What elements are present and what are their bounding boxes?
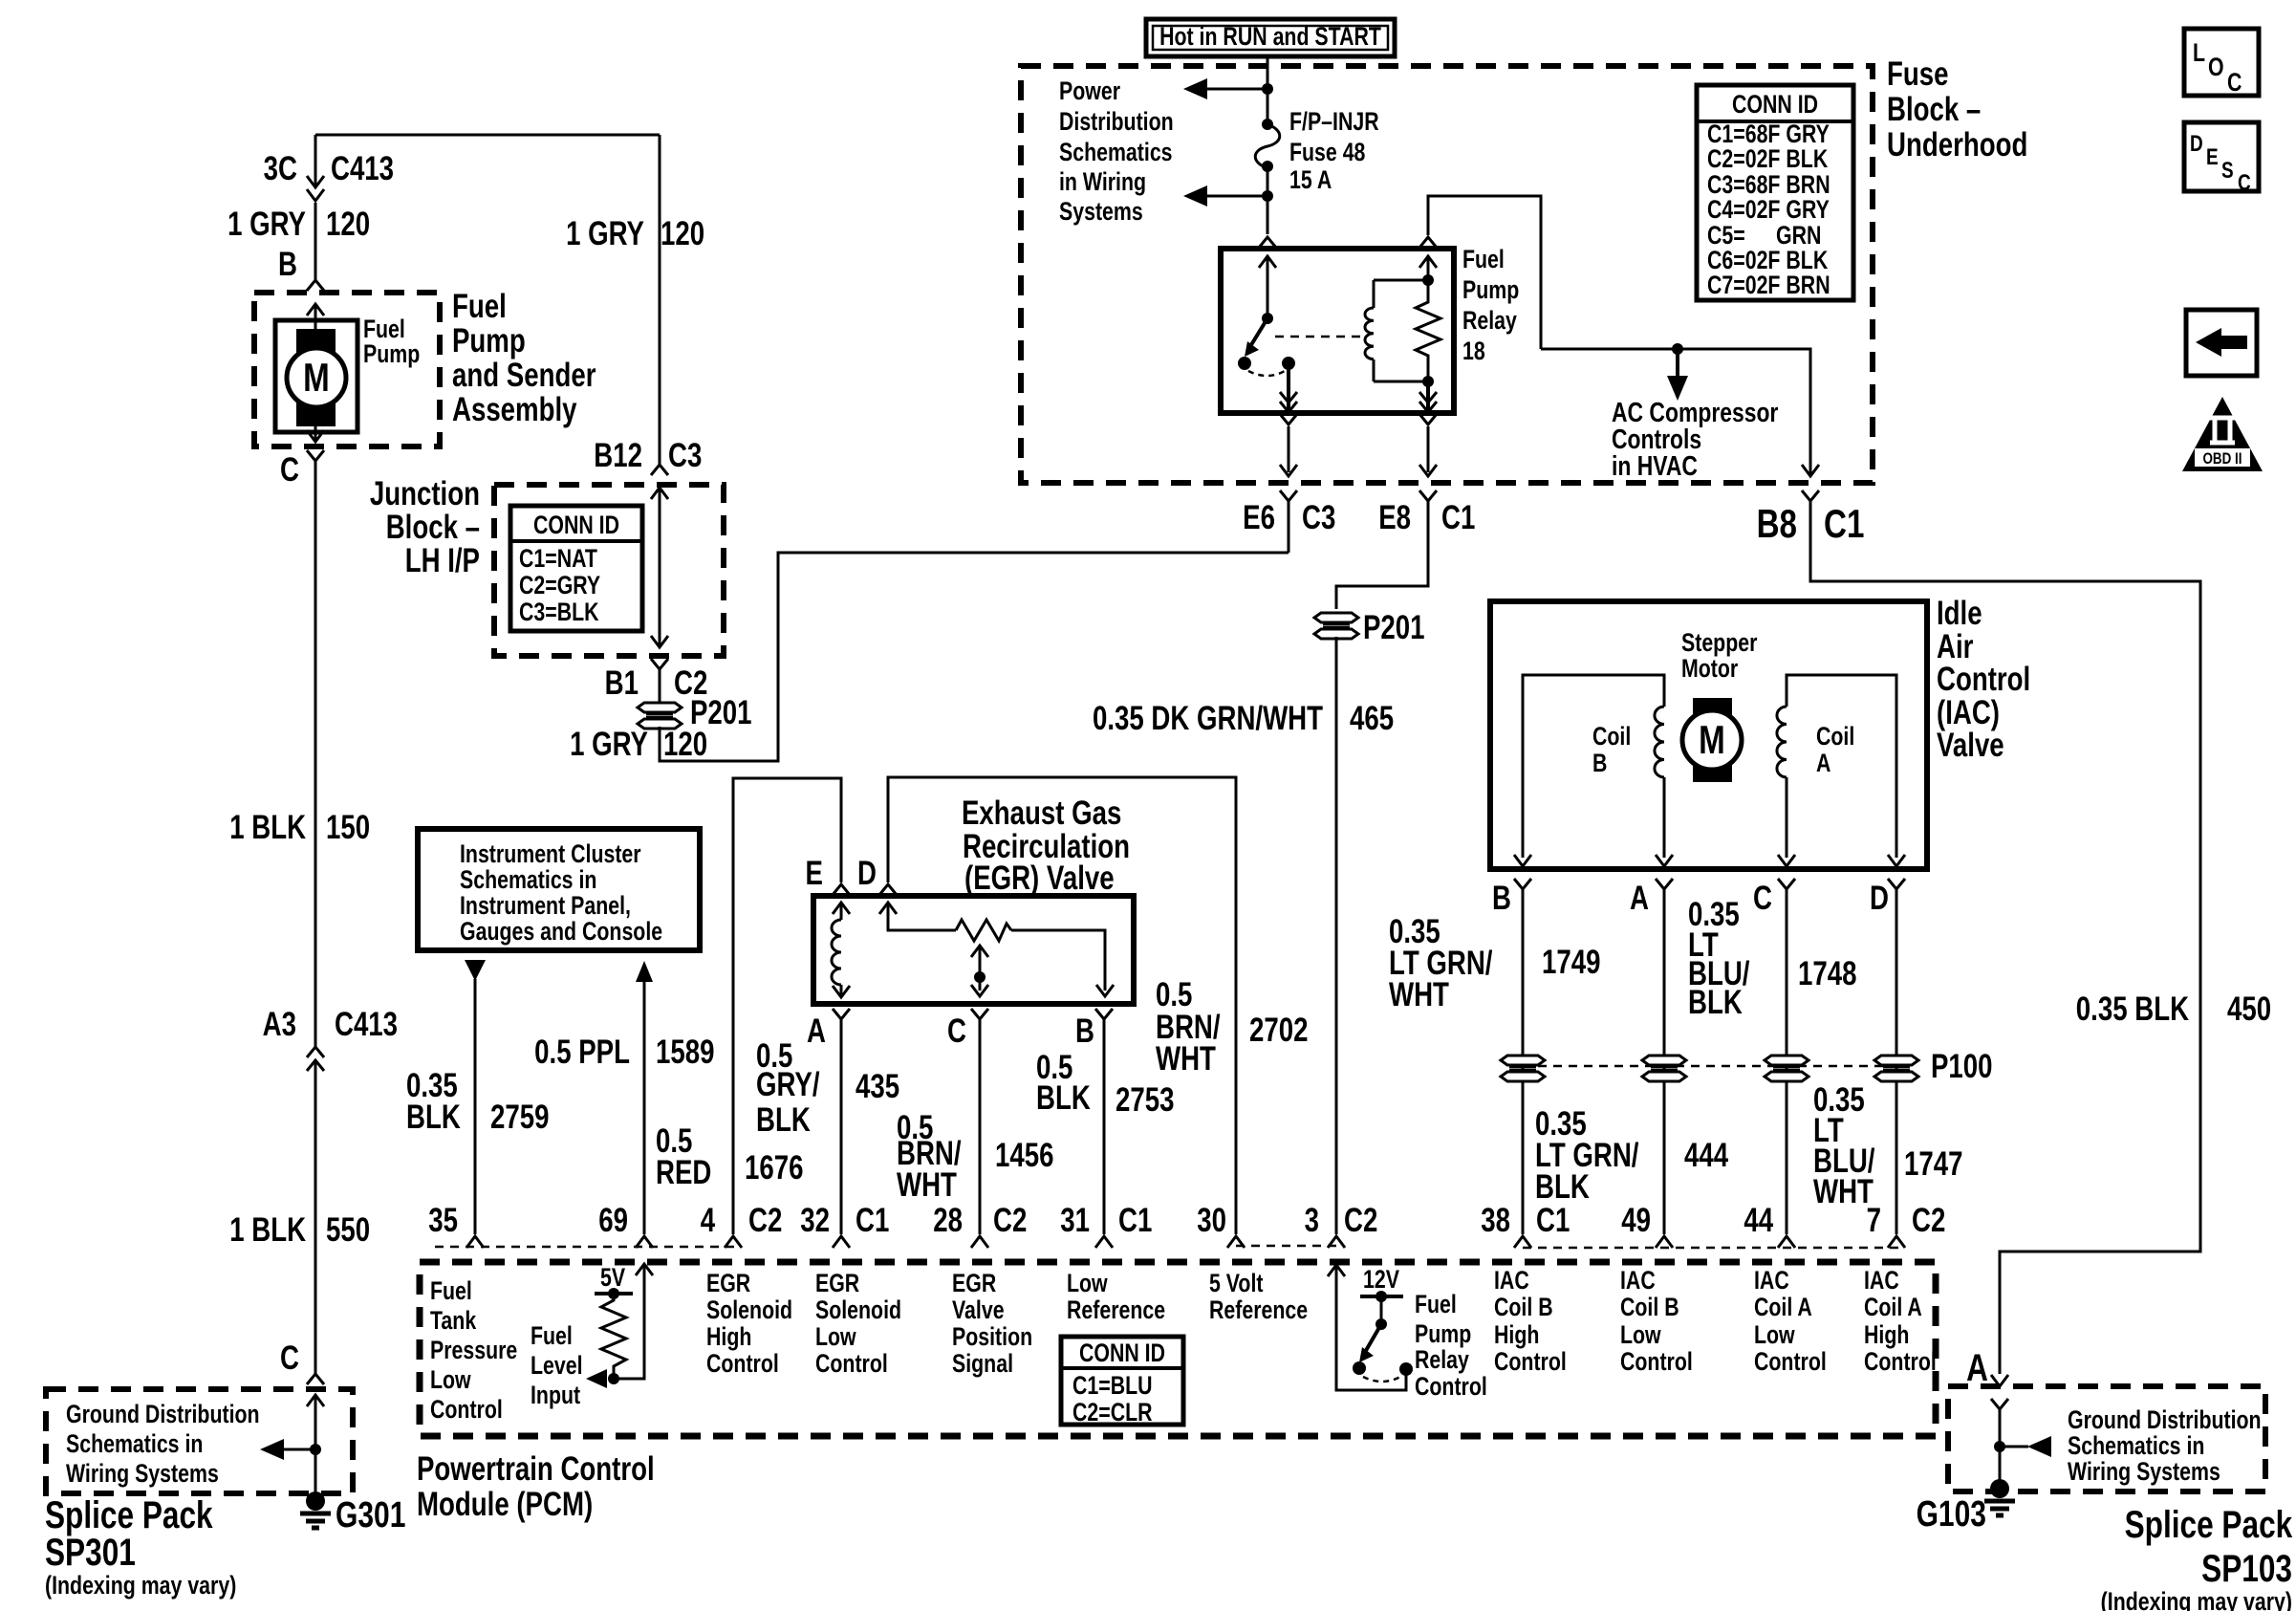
EGR valve box <box>813 896 1134 1004</box>
svg-text:1 GRY: 1 GRY <box>566 214 644 252</box>
relay contact dot left <box>1238 357 1251 370</box>
chevron IAC pin A <box>1656 879 1673 889</box>
svg-text:C4=02F GRY: C4=02F GRY <box>1707 196 1830 225</box>
relay contact dashed arc <box>1248 371 1285 376</box>
svg-text:2759: 2759 <box>490 1098 549 1136</box>
chevron IAC pin C <box>1778 879 1795 889</box>
svg-text:5 Volt: 5 Volt <box>1209 1270 1263 1298</box>
wire 2753 B pin to PCM pin 31 <box>1103 1019 1106 1234</box>
wire left vertical from top to connector C413 <box>314 135 317 187</box>
connector P100 grommet on wire 1749 <box>1501 1056 1545 1081</box>
wire inside junction block with both arrows <box>651 488 668 647</box>
svg-text:D: D <box>2190 130 2203 157</box>
svg-text:G103: G103 <box>1917 1494 1986 1535</box>
node switch contact dot right <box>1399 1362 1413 1376</box>
thin dashed connector line pins 38-49-44-7 <box>1523 1247 1898 1250</box>
svg-text:2753: 2753 <box>1116 1080 1174 1119</box>
svg-text:Stepper: Stepper <box>1681 629 1758 658</box>
svg-text:EGR: EGR <box>952 1270 997 1298</box>
svg-text:12V: 12V <box>1363 1266 1400 1295</box>
svg-text:2702: 2702 <box>1249 1011 1308 1049</box>
svg-text:Fuse 48: Fuse 48 <box>1289 139 1365 167</box>
relay switch common arrow up <box>1259 255 1276 318</box>
wire below fuse <box>1267 166 1269 196</box>
relay mechanical dashed link <box>1275 336 1361 338</box>
chevron PCM pin 32 <box>833 1236 850 1248</box>
svg-text:Low: Low <box>430 1366 471 1395</box>
chevron B8 <box>1802 490 1819 501</box>
svg-text:C2=02F BLK: C2=02F BLK <box>1707 145 1829 174</box>
svg-text:Pressure: Pressure <box>430 1337 517 1365</box>
relay coil feed wire up <box>1419 255 1437 280</box>
EGR position sensor resistor <box>956 920 1011 941</box>
node switch contact dot left <box>1353 1361 1366 1375</box>
svg-text:BLK: BLK <box>406 1098 461 1136</box>
node 12V dot <box>1375 1291 1387 1302</box>
svg-text:38: 38 <box>1481 1201 1510 1239</box>
relay switch pivot dot <box>1262 313 1273 324</box>
wire relay to E6 <box>1288 426 1290 472</box>
svg-text:Pump: Pump <box>1462 276 1519 305</box>
svg-text:B8: B8 <box>1757 502 1797 547</box>
DESC reference box <box>2184 122 2259 196</box>
chevron IAC pin B <box>1514 879 1531 889</box>
svg-text:465: 465 <box>1350 699 1394 737</box>
svg-text:C2: C2 <box>748 1201 782 1239</box>
svg-text:Block –: Block – <box>386 508 480 546</box>
IAC coil B loop <box>1523 675 1664 858</box>
svg-text:Distribution: Distribution <box>1059 108 1174 137</box>
svg-text:D: D <box>1870 879 1889 917</box>
fuse F48 symbol <box>1255 119 1280 172</box>
svg-text:Pump: Pump <box>452 321 526 359</box>
5V supply bar <box>595 1292 633 1295</box>
svg-text:49: 49 <box>1621 1201 1651 1239</box>
svg-text:L: L <box>2193 39 2205 68</box>
svg-text:P201: P201 <box>1363 608 1425 646</box>
svg-text:C1: C1 <box>1118 1201 1152 1239</box>
svg-text:Exhaust Gas: Exhaust Gas <box>962 794 1121 832</box>
connector P201 right grommet <box>1314 613 1358 639</box>
wire junction to B8 <box>1541 349 1810 475</box>
svg-text:Solenoid: Solenoid <box>706 1296 792 1325</box>
connector C413 arrow half <box>307 176 324 187</box>
svg-text:E8: E8 <box>1378 498 1411 536</box>
svg-text:Wiring Systems: Wiring Systems <box>2068 1458 2220 1487</box>
arrowhead coil B left leg <box>1514 855 1531 866</box>
svg-text:Signal: Signal <box>952 1350 1013 1379</box>
relay switch arm arrowhead <box>1245 341 1259 357</box>
svg-text:BLK: BLK <box>1688 983 1743 1021</box>
arrow up into SP301 <box>307 1395 324 1497</box>
svg-text:Fuel: Fuel <box>452 287 507 325</box>
wire branch to splice arrow <box>283 1448 315 1451</box>
thin dashed connector line pins 35-69-4 <box>435 1246 736 1249</box>
relay switch arm <box>1249 318 1267 348</box>
svg-text:B12: B12 <box>594 436 642 474</box>
svg-text:Low: Low <box>1067 1270 1108 1298</box>
wire 1748 IAC C to PCM pin 44 <box>1786 889 1788 1234</box>
svg-text:1 GRY: 1 GRY <box>570 725 648 763</box>
svg-text:High: High <box>1494 1321 1539 1350</box>
svg-text:M: M <box>1699 718 1725 763</box>
svg-text:Low: Low <box>815 1323 856 1352</box>
svg-text:Relay: Relay <box>1415 1346 1469 1375</box>
svg-text:Schematics in: Schematics in <box>2068 1432 2204 1461</box>
svg-text:E6: E6 <box>1243 498 1275 536</box>
svg-text:1456: 1456 <box>995 1136 1053 1174</box>
12V supply bar <box>1360 1295 1403 1298</box>
svg-text:SP103: SP103 <box>2201 1546 2292 1589</box>
relay control switch arm <box>1364 1324 1381 1354</box>
svg-text:Tank: Tank <box>430 1307 477 1336</box>
svg-text:3C: 3C <box>264 149 297 187</box>
node junction dot <box>1262 83 1273 95</box>
svg-text:28: 28 <box>933 1201 963 1239</box>
ground G103 <box>1984 1479 2015 1515</box>
svg-text:IAC: IAC <box>1754 1267 1789 1295</box>
svg-text:CONN ID: CONN ID <box>1732 91 1818 120</box>
svg-text:0.5 PPL: 0.5 PPL <box>534 1033 630 1071</box>
chevron PCM pin 4 <box>725 1236 742 1248</box>
wire from P201 down right and up to E6 <box>660 553 1289 761</box>
EGR wiper arrow <box>971 946 988 996</box>
svg-text:69: 69 <box>598 1201 628 1239</box>
svg-text:3: 3 <box>1305 1201 1319 1239</box>
svg-text:Control: Control <box>1494 1348 1567 1377</box>
svg-text:44: 44 <box>1744 1201 1773 1239</box>
svg-text:Control: Control <box>1620 1348 1693 1377</box>
wire E feed from pin 4 <box>733 778 841 1234</box>
wire right vertical 1 GRY 120 from top to junction block <box>659 135 661 465</box>
svg-text:Reference: Reference <box>1209 1296 1308 1325</box>
arrowhead coil A right leg <box>1888 855 1905 866</box>
svg-text:RED: RED <box>656 1153 711 1191</box>
wire relay coil to E8 <box>1427 426 1430 472</box>
svg-text:1749: 1749 <box>1542 943 1600 981</box>
svg-text:450: 450 <box>2227 990 2271 1028</box>
svg-text:Fuse: Fuse <box>1887 54 1948 93</box>
IAC valve box <box>1490 601 1927 869</box>
wire 444 IAC A to PCM pin 49 <box>1663 889 1666 1234</box>
wire pin 3 internal <box>1328 1265 1406 1390</box>
chevron E6 below relay <box>1280 414 1297 425</box>
svg-text:1747: 1747 <box>1904 1144 1962 1183</box>
IAC coil A loop <box>1777 675 1896 858</box>
relay output double arrowhead <box>1280 392 1297 412</box>
svg-text:Hot in RUN and START: Hot in RUN and START <box>1159 23 1381 52</box>
svg-text:C1=NAT: C1=NAT <box>519 545 597 574</box>
svg-text:31: 31 <box>1060 1201 1090 1239</box>
svg-text:444: 444 <box>1684 1136 1729 1174</box>
svg-text:18: 18 <box>1462 337 1485 366</box>
svg-text:15 A: 15 A <box>1289 166 1332 195</box>
splice pack SP103 dashed box <box>1948 1386 2265 1491</box>
svg-text:Valve: Valve <box>1937 726 2004 764</box>
svg-text:C413: C413 <box>335 1005 398 1043</box>
arrowhead E6 at fuse block edge <box>1280 465 1297 476</box>
svg-text:Coil: Coil <box>1816 723 1854 751</box>
svg-text:Wiring Systems: Wiring Systems <box>66 1460 219 1489</box>
svg-text:C413: C413 <box>331 149 394 187</box>
wire 1747 IAC D to PCM pin 7 <box>1895 889 1898 1234</box>
wire 1 GRY 120 down to fuel pump <box>314 203 317 280</box>
svg-text:GRY/: GRY/ <box>756 1065 820 1103</box>
svg-text:Control: Control <box>1754 1348 1827 1377</box>
svg-text:IAC: IAC <box>1494 1267 1529 1295</box>
svg-text:1 GRY: 1 GRY <box>227 205 306 243</box>
svg-text:(EGR) Valve: (EGR) Valve <box>964 859 1115 897</box>
svg-text:C: C <box>1753 879 1772 917</box>
PCM CONN ID table <box>1061 1337 1183 1427</box>
chevron E8 below relay <box>1419 414 1437 425</box>
svg-text:Position: Position <box>952 1323 1032 1352</box>
arrowhead up into instrument cluster <box>636 961 653 982</box>
chevron IAC pin D <box>1888 879 1905 889</box>
arrowhead coil A left leg <box>1778 855 1795 866</box>
junction block CONN ID table <box>510 506 642 631</box>
wire AC compressor stub <box>1676 349 1679 377</box>
chevron C pin <box>971 1009 988 1019</box>
terminal B chevron <box>307 280 324 291</box>
fuel pump and sender assembly dashed box <box>254 293 440 446</box>
node switch pivot dot <box>1375 1318 1387 1330</box>
svg-text:F/P–INJR: F/P–INJR <box>1289 108 1379 137</box>
wire 1 BLK 150 left main ground wire <box>314 461 317 1047</box>
svg-text:IAC: IAC <box>1864 1267 1899 1295</box>
svg-text:C3: C3 <box>668 436 702 474</box>
relay coil top bracket <box>1374 279 1428 282</box>
svg-text:Instrument Panel,: Instrument Panel, <box>460 892 631 921</box>
svg-text:0.35 DK GRN/WHT: 0.35 DK GRN/WHT <box>1093 699 1323 737</box>
svg-text:B1: B1 <box>605 664 639 702</box>
svg-text:C1: C1 <box>856 1201 889 1239</box>
fuel pump motor M1 <box>275 320 357 432</box>
node fuel level input dot <box>608 1373 619 1384</box>
svg-text:C3: C3 <box>1302 498 1335 536</box>
svg-text:1 BLK: 1 BLK <box>229 1210 306 1249</box>
svg-text:Module (PCM): Module (PCM) <box>417 1485 593 1523</box>
node EGR wiper dot <box>974 971 986 983</box>
svg-text:Block –: Block – <box>1887 90 1981 128</box>
wire 435 A pin to PCM pin 32 <box>840 1019 843 1234</box>
svg-text:1748: 1748 <box>1798 954 1856 992</box>
svg-text:C2=GRY: C2=GRY <box>519 572 600 600</box>
wire from hot box down <box>1267 56 1269 89</box>
chevron A pin <box>833 1009 850 1019</box>
connector P100 grommet on wire 444 <box>1642 1056 1686 1081</box>
svg-text:30: 30 <box>1197 1201 1226 1239</box>
PCM dashed box <box>420 1262 1936 1436</box>
svg-text:C: C <box>2227 69 2242 98</box>
svg-text:High: High <box>706 1323 751 1352</box>
chevron PCM pin 69 <box>636 1236 653 1248</box>
svg-text:32: 32 <box>800 1201 830 1239</box>
back arrow reference box <box>2186 310 2257 376</box>
svg-text:Input: Input <box>531 1382 580 1410</box>
svg-text:A: A <box>1630 879 1649 917</box>
svg-text:OBD II: OBD II <box>2203 450 2242 468</box>
wire to power distribution arrow 2 <box>1206 195 1267 198</box>
svg-text:Power: Power <box>1059 77 1120 106</box>
terminal C chevron at splice pack <box>307 1374 324 1384</box>
svg-text:Control: Control <box>1864 1348 1937 1377</box>
svg-text:B: B <box>1492 879 1511 917</box>
svg-text:Control: Control <box>706 1350 779 1379</box>
svg-text:Coil: Coil <box>1592 723 1631 751</box>
arrowhead power distribution 1 <box>1183 78 1207 99</box>
relay coil bottom bracket <box>1374 381 1428 383</box>
relay resistor <box>1416 280 1440 381</box>
fuel level pullup resistor <box>601 1294 626 1379</box>
wire B1 to P201 <box>659 669 661 703</box>
svg-text:Level: Level <box>531 1352 583 1381</box>
svg-text:C2=CLR: C2=CLR <box>1072 1399 1153 1427</box>
wire branch to splice arrow <box>2000 1446 2028 1448</box>
Hot in RUN and START box <box>1146 19 1395 56</box>
svg-text:Control: Control <box>430 1396 503 1425</box>
svg-text:A: A <box>807 1012 826 1050</box>
svg-text:SP301: SP301 <box>45 1530 136 1573</box>
svg-text:BLK: BLK <box>756 1100 811 1139</box>
splice pack SP301 dashed box <box>46 1389 353 1493</box>
svg-text:CONN ID: CONN ID <box>1079 1339 1165 1368</box>
chevron PCM pin 28 <box>971 1236 988 1248</box>
wire E8 to P201 right <box>1336 501 1428 609</box>
chevron E pin <box>833 884 850 895</box>
svg-text:WHT: WHT <box>1389 975 1449 1013</box>
node coil bottom dot <box>1422 376 1434 387</box>
svg-text:Low: Low <box>1754 1321 1795 1350</box>
svg-text:A: A <box>1966 1345 1988 1388</box>
svg-text:120: 120 <box>326 205 370 243</box>
svg-text:Ground Distribution: Ground Distribution <box>66 1401 260 1429</box>
chevron PCM pin 31 <box>1095 1236 1113 1248</box>
LOC reference box <box>2184 29 2259 98</box>
EGR position sensor right leg <box>1011 930 1114 996</box>
node coil top dot <box>1422 274 1434 286</box>
svg-text:M: M <box>303 356 330 401</box>
svg-text:Low: Low <box>1620 1321 1661 1350</box>
instrument cluster reference box <box>418 829 700 950</box>
wire pin 69 internal <box>614 1264 653 1379</box>
splice arrowhead left <box>260 1439 284 1460</box>
splice arrowhead left <box>2027 1436 2051 1457</box>
EGR solenoid coil winding <box>832 903 850 997</box>
svg-text:C3=BLK: C3=BLK <box>519 599 599 627</box>
chevron relay pin top right <box>1419 237 1437 248</box>
connector B1 chevron below junction block <box>651 659 668 669</box>
svg-text:1589: 1589 <box>656 1033 714 1071</box>
connector B12 chevron <box>651 465 668 475</box>
svg-text:C2: C2 <box>1344 1201 1377 1239</box>
P100 dashed link line <box>1523 1065 1896 1068</box>
svg-text:C: C <box>280 1339 299 1377</box>
svg-text:(Indexing may vary): (Indexing may vary) <box>45 1572 236 1600</box>
svg-text:Control: Control <box>1415 1373 1487 1402</box>
svg-text:Fuel: Fuel <box>1462 246 1505 274</box>
chevron E6 <box>1280 490 1297 501</box>
wire A to ground <box>1999 1409 2002 1482</box>
svg-text:Valve: Valve <box>952 1296 1005 1325</box>
svg-text:Junction: Junction <box>370 474 480 512</box>
svg-text:B: B <box>1592 750 1607 778</box>
svg-text:Coil B: Coil B <box>1620 1294 1679 1322</box>
node 5V dot <box>608 1288 619 1299</box>
arrowhead down from instrument cluster <box>465 960 486 981</box>
arrowhead coil B right leg <box>1656 855 1673 866</box>
wire 1 BLK 550 <box>314 1060 317 1374</box>
svg-text:Fuel: Fuel <box>531 1322 573 1351</box>
OBD II symbol <box>2182 397 2263 471</box>
svg-text:1676: 1676 <box>745 1148 803 1186</box>
svg-text:435: 435 <box>856 1067 899 1105</box>
svg-text:120: 120 <box>663 725 707 763</box>
IAC stepper motor M2 <box>1682 698 1742 782</box>
chevron D pin <box>879 884 897 895</box>
svg-text:and Sender: and Sender <box>452 356 596 394</box>
arrowhead B8 at fuse block edge <box>1802 465 1819 476</box>
wire to fuse <box>1267 89 1269 121</box>
wire motor bottom arrow down <box>307 426 324 442</box>
node junction dot 2 <box>1262 190 1273 202</box>
svg-text:Powertrain Control: Powertrain Control <box>417 1449 655 1488</box>
EGR position sensor feed arrow <box>879 903 956 930</box>
relay control switch arm arrowhead <box>1359 1347 1374 1362</box>
wire 1456 C pin to PCM pin 28 <box>979 1019 982 1234</box>
svg-text:E: E <box>2206 143 2219 170</box>
svg-text:B: B <box>1075 1012 1094 1050</box>
chevron relay pin top left <box>1259 237 1276 248</box>
svg-text:C: C <box>2238 169 2251 196</box>
svg-text:Coil A: Coil A <box>1754 1294 1812 1322</box>
svg-text:Coil B: Coil B <box>1494 1294 1553 1322</box>
svg-text:C1: C1 <box>1441 498 1475 536</box>
svg-text:Assembly: Assembly <box>452 390 577 428</box>
svg-text:Reference: Reference <box>1067 1296 1165 1325</box>
connector P100 grommet on wire 1747 <box>1874 1056 1918 1081</box>
junction block LH I/P dashed box <box>494 485 724 656</box>
svg-text:550: 550 <box>326 1210 370 1249</box>
svg-text:120: 120 <box>661 214 704 252</box>
svg-text:A: A <box>1816 750 1830 778</box>
relay output wire down <box>1287 363 1290 411</box>
wire fuse to relay <box>1267 196 1269 234</box>
svg-text:Schematics in: Schematics in <box>66 1430 203 1459</box>
chevron PCM pin 44 <box>1778 1236 1795 1248</box>
wire 1749 IAC B to PCM pin 38 <box>1522 889 1525 1234</box>
arrowhead power distribution 2 <box>1183 185 1207 207</box>
svg-text:Ground Distribution: Ground Distribution <box>2068 1406 2262 1435</box>
svg-text:C: C <box>947 1012 966 1050</box>
wire to power distribution arrow 1 <box>1206 88 1267 91</box>
svg-text:C: C <box>280 450 299 489</box>
chevron E8 <box>1419 490 1437 501</box>
svg-text:Relay: Relay <box>1462 307 1517 336</box>
svg-text:Schematics in: Schematics in <box>460 866 596 895</box>
wire E6 down to corner <box>1288 501 1290 553</box>
svg-text:Splice Pack: Splice Pack <box>2125 1502 2293 1545</box>
svg-text:35: 35 <box>428 1201 458 1239</box>
chevron PCM pin 38 <box>1514 1236 1531 1248</box>
wire 12V to switch pivot <box>1380 1296 1383 1324</box>
svg-text:S: S <box>2221 157 2234 184</box>
svg-text:Fuel: Fuel <box>430 1277 472 1306</box>
svg-text:Idle: Idle <box>1937 594 1982 632</box>
node junction dot SP103 <box>1994 1441 2005 1452</box>
svg-text:Gauges and Console: Gauges and Console <box>460 918 662 947</box>
svg-text:Motor: Motor <box>1681 655 1739 684</box>
